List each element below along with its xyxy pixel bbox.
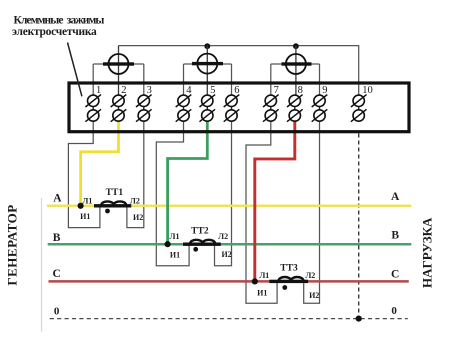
current transformer TT1 primary bar <box>94 204 131 207</box>
svg-text:Л1: Л1 <box>170 232 180 241</box>
svg-text:электросчетчика: электросчетчика <box>12 26 97 38</box>
svg-text:И1: И1 <box>257 289 267 298</box>
current transformer TT2 primary bar <box>183 243 221 246</box>
current transformer TT3 primary bar <box>269 280 308 283</box>
svg-text:0: 0 <box>391 305 397 317</box>
svg-text:6: 6 <box>234 85 239 96</box>
svg-text:9: 9 <box>322 85 327 96</box>
wire: terminal 6 down to TT2 secondary И2 bracket <box>215 121 232 265</box>
phase line B (green) <box>48 243 412 246</box>
meter element 1 voltage coil circle <box>93 46 144 95</box>
phase line C (red) <box>49 280 409 283</box>
svg-text:А: А <box>53 193 62 205</box>
svg-text:ТТ1: ТТ1 <box>106 188 124 198</box>
svg-text:10: 10 <box>362 85 373 96</box>
terminal 2 <box>111 85 127 122</box>
wire: terminal 1 to TT1 secondary И1 <box>68 121 100 227</box>
svg-text:НАГРУЗКА: НАГРУЗКА <box>420 217 435 288</box>
svg-text:Л2: Л2 <box>218 232 228 241</box>
svg-text:С: С <box>391 268 399 280</box>
svg-text:ГЕНЕРАТОР: ГЕНЕРАТОР <box>5 204 20 285</box>
svg-text:7: 7 <box>274 85 279 96</box>
wire: terminal 8 red to phase C <box>255 121 295 281</box>
svg-text:Л2: Л2 <box>130 196 140 205</box>
svg-text:И2: И2 <box>221 250 231 259</box>
svg-text:И2: И2 <box>133 213 143 222</box>
terminal 7 <box>263 85 279 122</box>
current transformer TT1 secondary winding arcs <box>101 201 126 205</box>
current transformer TT3 polarity dot <box>282 285 287 290</box>
node: junction above meter element 3 <box>293 43 299 49</box>
svg-text:И2: И2 <box>309 291 319 300</box>
wire: terminal 3 down to TT1 secondary И2 bracket <box>127 121 144 227</box>
svg-text:Л1: Л1 <box>82 196 92 205</box>
terminal box of the meter <box>69 83 409 132</box>
wire: terminal 4 to TT2 secondary И1 <box>156 121 189 265</box>
svg-text:2: 2 <box>121 85 126 96</box>
svg-text:Л1: Л1 <box>259 271 269 280</box>
svg-text:ТТ2: ТТ2 <box>191 227 209 237</box>
node: junction phase B / terminal 5 tap <box>165 241 171 247</box>
svg-text:ТТ3: ТТ3 <box>280 264 298 274</box>
terminal 1 <box>85 85 101 122</box>
wire: terminal 2 yellow to phase A <box>81 121 119 205</box>
wire: terminal 10 dashed down to neutral <box>358 134 360 319</box>
svg-text:4: 4 <box>186 85 192 96</box>
terminal 5 <box>200 85 216 122</box>
node: junction above meter element 2 <box>204 43 210 49</box>
svg-text:3: 3 <box>147 85 152 96</box>
terminal 10 <box>351 85 373 122</box>
wire: terminal 9 down to TT3 secondary И2 bracket <box>304 121 320 303</box>
meter element 3 voltage coil circle <box>271 46 320 95</box>
svg-text:А: А <box>391 191 400 203</box>
wire: terminal 7 to TT3 secondary И1 <box>246 121 277 303</box>
current transformer TT2 polarity dot <box>193 247 198 252</box>
svg-text:Клеммные зажимы: Клеммные зажимы <box>14 15 105 27</box>
top wire from meter element 1 to terminal 10 <box>119 46 359 95</box>
terminal 8 <box>287 85 303 122</box>
current transformer TT2 secondary winding arcs <box>190 240 215 243</box>
svg-text:С: С <box>52 268 60 280</box>
node: junction phase C / terminal 8 tap <box>252 278 258 284</box>
svg-text:В: В <box>53 232 61 244</box>
meter element 2 voltage coil circle <box>184 46 232 95</box>
svg-text:0: 0 <box>54 306 60 318</box>
terminal 6 <box>224 85 240 122</box>
neutral line 0 (dashed) <box>50 318 408 320</box>
terminal 4 <box>176 85 193 122</box>
phase line A (yellow) <box>47 205 411 208</box>
faint photo artifact line <box>41 198 43 332</box>
svg-text:И1: И1 <box>170 250 180 259</box>
svg-text:8: 8 <box>298 85 303 96</box>
current transformer TT3 secondary winding arcs <box>279 277 304 281</box>
svg-text:В: В <box>391 230 399 242</box>
callout pointer line <box>68 43 82 97</box>
wire: terminal 5 green to phase B <box>168 121 208 244</box>
terminal 3 <box>136 85 152 122</box>
node: junction neutral / terminal 10 <box>356 316 362 322</box>
node: junction phase A / terminal 2 tap <box>78 203 84 209</box>
svg-text:1: 1 <box>96 85 101 96</box>
svg-text:Л2: Л2 <box>305 271 315 280</box>
svg-text:5: 5 <box>210 85 215 96</box>
svg-text:И1: И1 <box>80 212 90 221</box>
current transformer TT1 polarity dot <box>105 209 110 214</box>
terminal 9 <box>312 85 328 122</box>
